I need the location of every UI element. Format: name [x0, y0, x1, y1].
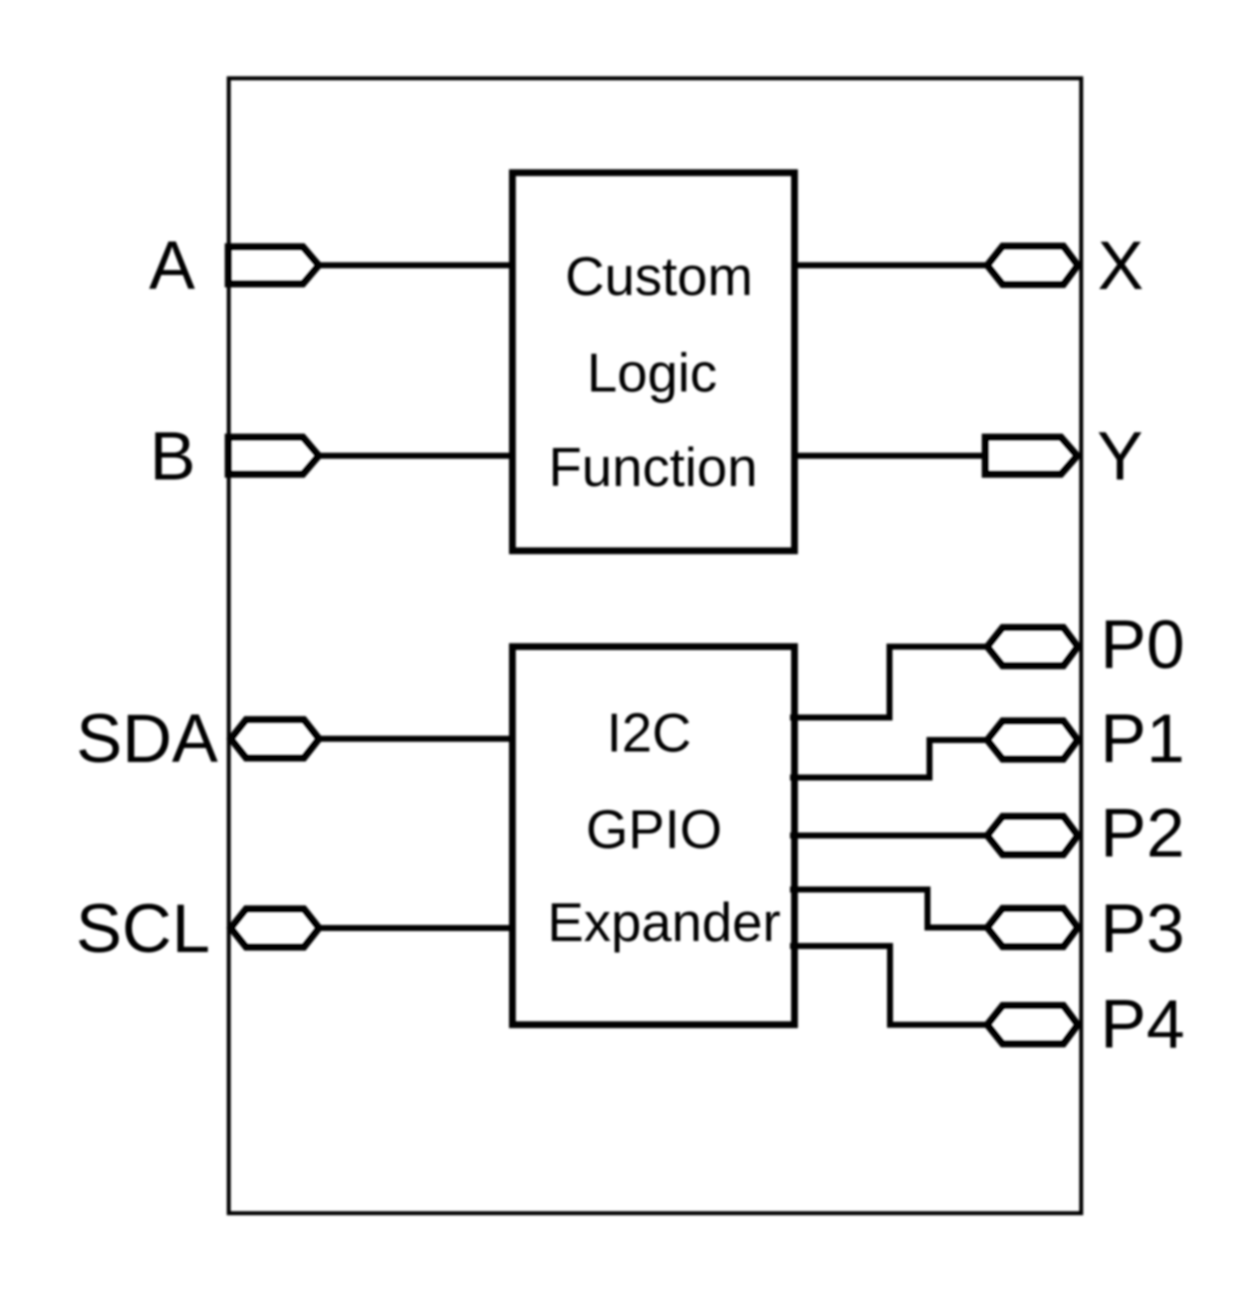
svg-text:Y: Y [1097, 418, 1143, 495]
svg-text:Logic: Logic [587, 343, 717, 404]
svg-text:P3: P3 [1100, 890, 1184, 967]
svg-text:Function: Function [548, 437, 757, 498]
svg-text:GPIO: GPIO [586, 799, 722, 860]
svg-text:Custom: Custom [565, 246, 753, 307]
svg-text:B: B [150, 418, 196, 495]
svg-text:P4: P4 [1100, 986, 1184, 1063]
svg-text:P1: P1 [1100, 700, 1184, 777]
svg-text:P2: P2 [1100, 795, 1184, 872]
svg-text:Expander: Expander [547, 892, 780, 953]
svg-text:X: X [1098, 227, 1144, 304]
svg-text:I2C: I2C [607, 703, 692, 764]
svg-text:SDA: SDA [76, 700, 218, 777]
svg-text:SCL: SCL [76, 890, 210, 967]
svg-text:A: A [149, 227, 195, 304]
svg-text:P0: P0 [1100, 606, 1184, 683]
